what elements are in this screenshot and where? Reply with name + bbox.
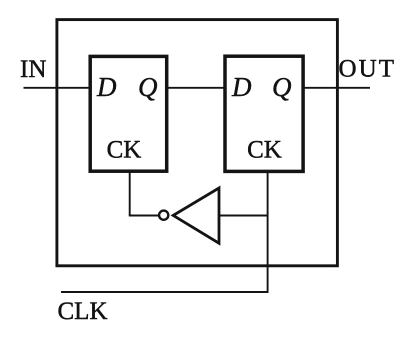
wire U1 CK drop — [129, 170, 131, 216]
svg-text:D: D — [231, 72, 252, 102]
svg-text:CLK: CLK — [58, 298, 108, 325]
wire to inverter bubble — [129, 215, 158, 217]
wire CLK horizontal — [61, 291, 269, 293]
svg-text:D: D — [96, 72, 117, 102]
svg-text:OUT: OUT — [339, 56, 397, 83]
svg-text:Q: Q — [272, 72, 292, 102]
wire inverter input — [220, 215, 268, 217]
wire CLK vertical to U2 CK — [267, 170, 269, 292]
flip-flop U2 — [225, 56, 303, 171]
wire U1 Q to U2 D — [166, 87, 226, 89]
svg-text:CK: CK — [247, 137, 282, 164]
svg-text:IN: IN — [20, 56, 46, 83]
wire IN to U1 D — [24, 87, 92, 89]
inverter U3 triangle — [173, 188, 219, 243]
wire U2 Q to OUT — [303, 87, 371, 89]
outer box — [57, 20, 338, 266]
svg-text:Q: Q — [138, 72, 158, 102]
flip-flop U1 — [90, 56, 167, 171]
inverter U3 bubble — [159, 211, 168, 220]
svg-text:CK: CK — [107, 137, 142, 164]
